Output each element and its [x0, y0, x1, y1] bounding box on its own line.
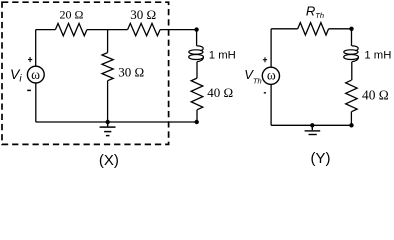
wire: Y left vertical lower	[270, 84, 272, 125]
wire: Y load mid stub	[351, 62, 353, 81]
wire: Y load branch top stub	[351, 29, 353, 46]
node: X load top junction dot	[194, 27, 198, 31]
wire: Y top left segment	[271, 28, 298, 30]
resistor 30 ohm (horizontal)	[128, 23, 161, 35]
resistor 40 ohm (Y vertical)	[346, 80, 357, 112]
svg-text:RTh: RTh	[306, 4, 324, 21]
resistor 40 ohm (X vertical)	[191, 78, 203, 110]
wire: X bottom	[36, 121, 197, 123]
svg-text:40 Ω: 40 Ω	[207, 85, 233, 100]
node: X load bottom junction dot	[195, 120, 199, 124]
svg-text:40 Ω: 40 Ω	[362, 88, 389, 103]
svg-text:Vi: Vi	[10, 66, 22, 85]
wire: X middle branch upper	[107, 30, 109, 53]
wire: X top left segment	[36, 29, 56, 31]
wire: X load bottom stub	[196, 110, 198, 122]
minus sign of source VTh	[264, 92, 266, 94]
ground (X)	[100, 122, 116, 136]
wire: X top right segment	[160, 29, 197, 31]
svg-text:ω: ω	[31, 67, 40, 82]
wire: X left vertical upper	[35, 30, 37, 67]
source Vi circle	[27, 66, 44, 83]
svg-text:1 mH: 1 mH	[209, 50, 236, 62]
resistor 20 ohm (horizontal)	[55, 23, 87, 35]
svg-text:ω: ω	[267, 68, 276, 83]
svg-text:VTh: VTh	[244, 67, 261, 85]
svg-text:30 Ω: 30 Ω	[118, 65, 144, 80]
svg-text:20 Ω: 20 Ω	[60, 7, 84, 21]
svg-text:30 Ω: 30 Ω	[130, 7, 156, 22]
svg-text:(X): (X)	[99, 152, 119, 169]
wire: X left vertical lower	[35, 83, 37, 122]
node: Y load bottom junction dot	[349, 123, 353, 127]
node: Y ground junction dot	[310, 123, 314, 127]
resistor 30 ohm (vertical middle)	[102, 53, 113, 81]
inductor 1 mH (X)	[189, 46, 204, 62]
svg-text:(Y): (Y)	[311, 150, 331, 167]
wire: Y left vertical upper	[270, 29, 272, 67]
wire: X middle branch lower	[107, 81, 109, 122]
dashed box around network X	[2, 2, 169, 144]
source VTh circle	[262, 67, 279, 84]
wire: Y load bottom stub	[350, 112, 352, 126]
ground (Y)	[305, 125, 321, 134]
wire: X top middle segment	[87, 29, 128, 31]
wire: X load mid stub	[196, 62, 198, 79]
node: Y load top junction dot	[349, 27, 353, 31]
wire: Y bottom	[271, 124, 351, 126]
plus sign of source Vi	[28, 57, 32, 62]
minus sign of source Vi	[27, 89, 31, 91]
resistor RTh (horizontal)	[298, 23, 329, 35]
svg-text:1 mH: 1 mH	[364, 50, 391, 62]
wire: Y top right segment	[329, 28, 352, 30]
node: X ground junction dot	[106, 120, 110, 124]
plus sign of source VTh	[263, 57, 267, 62]
inductor 1 mH (Y)	[344, 46, 359, 62]
wire: X load branch top stub	[196, 30, 198, 46]
